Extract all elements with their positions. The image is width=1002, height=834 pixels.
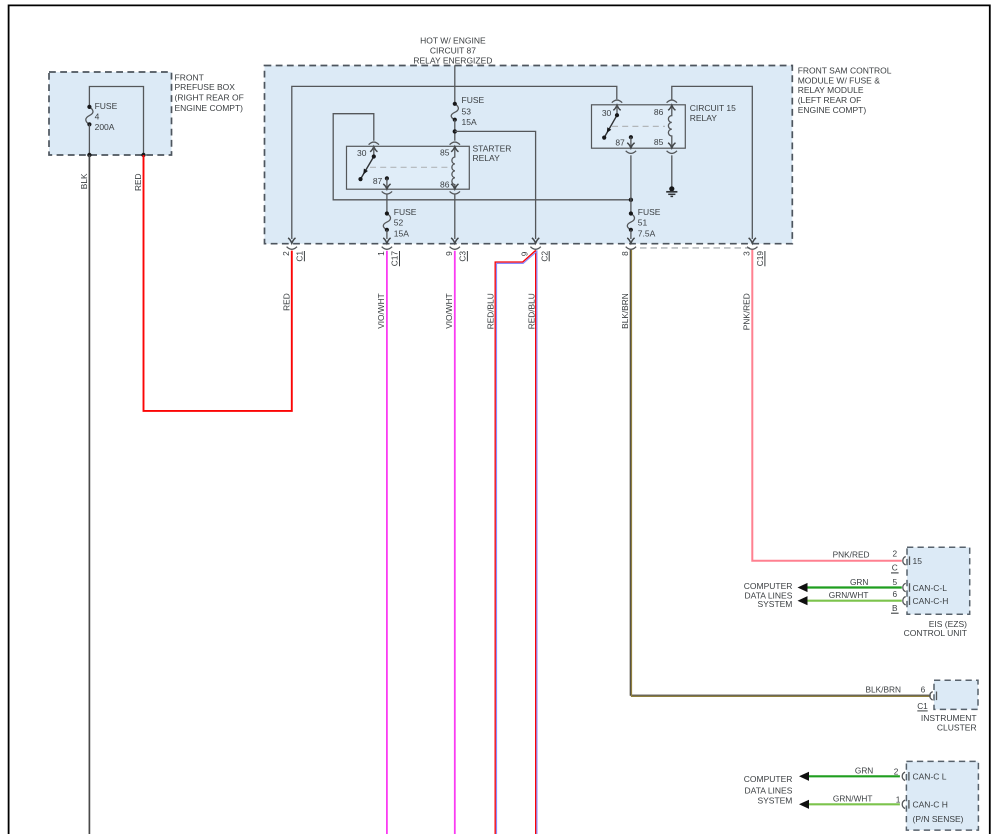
arrow GRN PN bbox=[799, 772, 809, 781]
svg-text:C19: C19 bbox=[755, 251, 765, 267]
svg-text:BLK: BLK bbox=[79, 173, 89, 189]
svg-text:8: 8 bbox=[620, 251, 630, 256]
svg-text:(P/N SENSE): (P/N SENSE) bbox=[913, 814, 964, 824]
svg-text:C3: C3 bbox=[458, 251, 468, 262]
wire fuse51 to pin8 bbox=[630, 230, 632, 239]
svg-text:86: 86 bbox=[654, 107, 664, 117]
svg-text:ENGINE COMPT): ENGINE COMPT) bbox=[798, 105, 867, 115]
front prefuse box body bbox=[49, 72, 172, 155]
wire VIO/WHT 2 bbox=[454, 251, 456, 834]
circuit15 relay box bbox=[592, 105, 686, 148]
c15 switch blade arrowhead bbox=[607, 127, 612, 133]
svg-text:CONTROL UNIT: CONTROL UNIT bbox=[904, 628, 967, 638]
starter relay dashed link bbox=[370, 166, 450, 168]
svg-text:FUSE: FUSE bbox=[95, 101, 118, 111]
svg-text:85: 85 bbox=[440, 148, 450, 158]
arc below starter pin87 bbox=[382, 191, 392, 194]
arc above c15 pin30 bbox=[612, 100, 622, 103]
starter pin87 arrow down bbox=[383, 184, 390, 189]
svg-text:RELAY ENERGIZED: RELAY ENERGIZED bbox=[413, 55, 492, 65]
starter coil bbox=[452, 147, 455, 190]
pin2 C1 arrow bbox=[288, 238, 295, 243]
arc below starter pin86 bbox=[450, 191, 460, 194]
svg-text:FUSE: FUSE bbox=[462, 95, 485, 105]
wire fuse4 to box edge bbox=[88, 124, 90, 155]
wire fuse53 to starter relay 85 bbox=[454, 120, 456, 141]
svg-text:87: 87 bbox=[615, 138, 625, 148]
wire fuse52 to pin1C17 bbox=[386, 230, 388, 239]
wire BLK down bbox=[88, 155, 90, 834]
arrow GRN EIS bbox=[798, 583, 808, 592]
svg-text:CIRCUIT 87: CIRCUIT 87 bbox=[430, 45, 476, 55]
EIS pin2 arc bbox=[903, 557, 906, 565]
pin3 C19 arc bbox=[747, 247, 757, 250]
wire starter relay pin30 loop bbox=[333, 114, 631, 200]
svg-text:CAN-C-L: CAN-C-L bbox=[913, 583, 948, 593]
pin9 C3 arc bbox=[450, 247, 460, 250]
svg-text:2: 2 bbox=[281, 251, 291, 256]
svg-text:BLK/BRN: BLK/BRN bbox=[620, 293, 630, 329]
EIS control unit box bbox=[907, 547, 970, 614]
pin9b C2 arc bbox=[530, 247, 540, 250]
svg-text:1: 1 bbox=[376, 251, 386, 256]
wire GRN/WHT EIS bbox=[807, 600, 902, 602]
svg-text:RELAY: RELAY bbox=[473, 153, 501, 163]
c15 pin87 arrow down bbox=[627, 143, 634, 148]
starter pin86 arrow down bbox=[451, 184, 458, 189]
EIS pin6 arc bbox=[903, 597, 906, 605]
starter switch blade bbox=[361, 157, 374, 180]
wire starter86 down to pin9C3 bbox=[454, 194, 456, 239]
wire branch to pin9 C2 bbox=[455, 131, 536, 239]
svg-text:GRN/WHT: GRN/WHT bbox=[833, 794, 873, 804]
junction prefuse right bbox=[141, 153, 145, 157]
fuse F51 element bbox=[627, 214, 634, 230]
pin9 C3 arrow bbox=[451, 238, 458, 243]
wire starter87 to fuse52 bbox=[386, 194, 388, 214]
wire RED prefuse to SAM pin2 bbox=[144, 155, 292, 411]
starter pin87 wire down bbox=[385, 176, 389, 180]
wire GRN PN bbox=[808, 775, 900, 777]
svg-text:CAN-C H: CAN-C H bbox=[913, 800, 948, 810]
svg-text:7.5A: 7.5A bbox=[638, 228, 656, 238]
svg-text:CIRCUIT 15: CIRCUIT 15 bbox=[690, 103, 736, 113]
junction prefuse left bbox=[87, 153, 91, 157]
arc below c15 pin87 bbox=[626, 151, 636, 154]
svg-text:CAN-C L: CAN-C L bbox=[913, 772, 947, 782]
svg-text:3: 3 bbox=[741, 251, 751, 256]
wire internal loop prefuse bbox=[89, 87, 143, 156]
wire BLK/BRN to cluster bbox=[630, 250, 931, 695]
starter relay box bbox=[347, 146, 470, 189]
svg-text:PREFUSE BOX: PREFUSE BOX bbox=[175, 82, 236, 92]
starter pin30 arrow up bbox=[370, 147, 377, 152]
svg-text:PNK/RED: PNK/RED bbox=[833, 550, 870, 560]
svg-text:RED: RED bbox=[133, 174, 143, 192]
junction fuse53 branch bbox=[453, 129, 457, 133]
starter switch blade arrowhead bbox=[363, 169, 368, 175]
connector dashes pin8-pin3 bbox=[640, 247, 750, 249]
svg-text:CAN-C-H: CAN-C-H bbox=[913, 596, 949, 606]
wire RED/BLU branch bbox=[495, 250, 536, 834]
svg-text:RELAY: RELAY bbox=[690, 113, 718, 123]
wire long horizontal bus bbox=[292, 86, 617, 239]
svg-text:SYSTEM: SYSTEM bbox=[757, 599, 792, 609]
svg-text:53: 53 bbox=[462, 106, 472, 116]
svg-text:6: 6 bbox=[921, 685, 926, 695]
pin9b C2 arrow bbox=[532, 238, 539, 243]
instrument cluster box bbox=[934, 680, 978, 709]
starter pin85 arrow up bbox=[451, 147, 458, 152]
arc below c15 pin85 bbox=[667, 151, 677, 154]
svg-text:HOT W/ ENGINE: HOT W/ ENGINE bbox=[420, 36, 486, 46]
ground G1 bbox=[669, 186, 674, 191]
svg-text:C: C bbox=[892, 562, 898, 572]
svg-text:SYSTEM: SYSTEM bbox=[757, 796, 792, 806]
svg-text:15A: 15A bbox=[462, 117, 477, 127]
fuse F4 element bbox=[86, 107, 93, 125]
fuse F52 element bbox=[383, 214, 390, 230]
svg-text:2: 2 bbox=[892, 549, 897, 559]
c15 pin86 arrow up bbox=[668, 105, 675, 110]
arrow GRN/WHT EIS bbox=[798, 596, 808, 605]
svg-text:30: 30 bbox=[602, 108, 612, 118]
c15 switch blade bbox=[604, 115, 617, 137]
svg-text:FRONT SAM CONTROL: FRONT SAM CONTROL bbox=[798, 66, 892, 76]
EIS pin5 arc bbox=[903, 583, 906, 591]
wire GRN/WHT PN bbox=[808, 803, 900, 805]
c15 coil bbox=[668, 105, 671, 148]
svg-text:BLK/BRN: BLK/BRN bbox=[865, 684, 901, 694]
svg-text:5: 5 bbox=[892, 577, 897, 587]
svg-text:30: 30 bbox=[357, 148, 367, 158]
EIS pin2 tick bbox=[909, 556, 911, 565]
svg-text:GRN: GRN bbox=[855, 766, 873, 776]
c15 pin85 arrow down bbox=[668, 143, 675, 148]
PN pin1 arc bbox=[902, 800, 905, 808]
cluster pin arc bbox=[930, 692, 933, 700]
svg-text:RED/BLU: RED/BLU bbox=[485, 293, 495, 329]
svg-text:FRONT: FRONT bbox=[175, 72, 204, 82]
c15 dashed link bbox=[612, 125, 665, 127]
svg-text:RED: RED bbox=[281, 293, 291, 311]
wire VIO/WHT 1 bbox=[386, 251, 388, 834]
svg-text:RED/BLU: RED/BLU bbox=[526, 293, 536, 329]
svg-text:STARTER: STARTER bbox=[473, 144, 512, 154]
arc above starter pin85 bbox=[450, 142, 460, 145]
pin1 C17 arrow bbox=[383, 238, 390, 243]
wire hot feed down to fuse53 bbox=[454, 65, 456, 104]
fuse F53 element bbox=[451, 104, 458, 120]
svg-text:15A: 15A bbox=[394, 228, 409, 238]
svg-text:85: 85 bbox=[654, 137, 664, 147]
svg-text:MODULE W/ FUSE &: MODULE W/ FUSE & bbox=[798, 75, 881, 85]
svg-text:9: 9 bbox=[520, 251, 530, 256]
svg-text:C2: C2 bbox=[539, 251, 549, 262]
svg-text:C1: C1 bbox=[917, 701, 928, 711]
c15 pin87 wire down bbox=[629, 135, 633, 139]
svg-text:ENGINE COMPT): ENGINE COMPT) bbox=[175, 103, 244, 113]
pin2 C1 arc bbox=[287, 247, 297, 250]
wire PNK/RED to EIS bbox=[752, 250, 902, 561]
pin8 arc bbox=[626, 247, 636, 250]
svg-text:2: 2 bbox=[894, 766, 899, 776]
svg-text:(LEFT REAR OF: (LEFT REAR OF bbox=[798, 95, 862, 105]
svg-text:GRN/WHT: GRN/WHT bbox=[829, 590, 869, 600]
wire c15-86 up over to pin3C19 bbox=[672, 86, 753, 239]
svg-text:PNK/RED: PNK/RED bbox=[742, 293, 752, 330]
svg-text:52: 52 bbox=[394, 217, 404, 227]
svg-text:15: 15 bbox=[913, 556, 923, 566]
svg-text:COMPUTER: COMPUTER bbox=[744, 774, 793, 784]
wire GRN EIS bbox=[807, 586, 902, 588]
svg-text:DATA LINES: DATA LINES bbox=[745, 786, 793, 796]
svg-text:1: 1 bbox=[896, 794, 901, 804]
svg-text:FUSE: FUSE bbox=[394, 207, 417, 217]
svg-text:B: B bbox=[892, 603, 898, 613]
svg-text:VIO/WHT: VIO/WHT bbox=[376, 293, 386, 329]
svg-text:6: 6 bbox=[892, 589, 897, 599]
arc above c15 pin86 bbox=[667, 100, 677, 103]
svg-text:COMPUTER: COMPUTER bbox=[744, 581, 793, 591]
svg-text:C1: C1 bbox=[295, 251, 305, 262]
svg-text:51: 51 bbox=[638, 217, 648, 227]
svg-text:FUSE: FUSE bbox=[638, 207, 661, 217]
c15 pin30 arrow up bbox=[613, 105, 620, 110]
arc above starter pin30 bbox=[369, 142, 379, 145]
svg-text:4: 4 bbox=[95, 111, 100, 121]
svg-text:C17: C17 bbox=[390, 251, 400, 267]
wire c15-85 to ground bbox=[671, 155, 673, 189]
wire c15-87 junction bbox=[629, 198, 633, 202]
svg-text:87: 87 bbox=[373, 176, 383, 186]
svg-text:86: 86 bbox=[440, 180, 450, 190]
svg-text:200A: 200A bbox=[95, 122, 115, 132]
wire RED/BLU main bbox=[535, 250, 537, 834]
pin8 arrow bbox=[627, 238, 634, 243]
P/N sense box bbox=[906, 761, 978, 830]
PN pin2 arc bbox=[902, 772, 905, 780]
svg-text:VIO/WHT: VIO/WHT bbox=[444, 293, 454, 329]
svg-text:RELAY MODULE: RELAY MODULE bbox=[798, 85, 864, 95]
arrow GRN/WHT PN bbox=[799, 800, 809, 809]
svg-text:9: 9 bbox=[444, 251, 454, 256]
svg-text:GRN: GRN bbox=[850, 577, 868, 587]
svg-text:(RIGHT REAR OF: (RIGHT REAR OF bbox=[175, 92, 244, 102]
svg-text:CLUSTER: CLUSTER bbox=[937, 722, 977, 732]
pin1 C17 arc bbox=[382, 247, 392, 250]
pin3 C19 arrow bbox=[749, 238, 756, 243]
SAM module box bbox=[265, 66, 793, 244]
